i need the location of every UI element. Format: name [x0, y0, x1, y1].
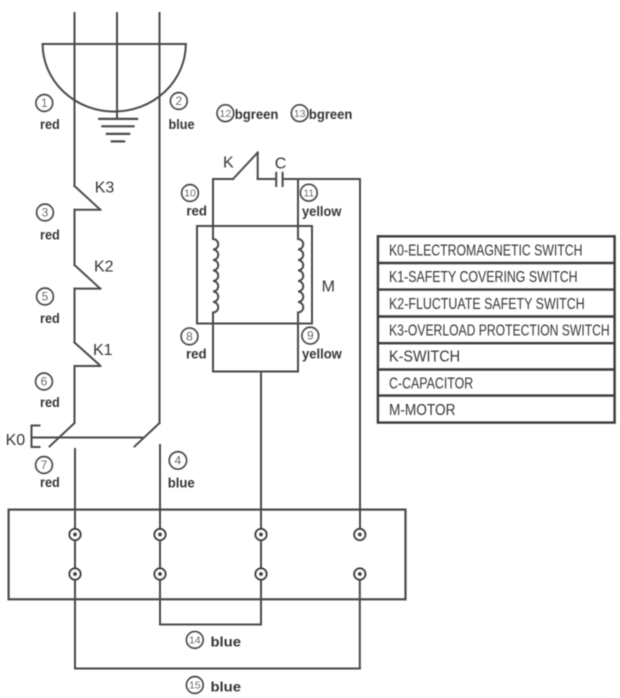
- svg-text:red: red: [186, 203, 207, 219]
- svg-text:red: red: [40, 474, 60, 490]
- svg-text:red: red: [40, 394, 60, 410]
- svg-text:8: 8: [186, 329, 193, 343]
- svg-text:yellow: yellow: [302, 203, 341, 219]
- svg-text:C-CAPACITOR: C-CAPACITOR: [389, 376, 473, 393]
- svg-text:7: 7: [41, 458, 48, 472]
- svg-text:K3-OVERLOAD PROTECTION SWITCH: K3-OVERLOAD PROTECTION SWITCH: [389, 323, 610, 340]
- svg-text:K2-FLUCTUATE SAFETY SWITCH: K2-FLUCTUATE SAFETY SWITCH: [389, 296, 585, 313]
- svg-text:10: 10: [184, 188, 196, 200]
- svg-text:9: 9: [307, 329, 314, 343]
- svg-text:K: K: [223, 155, 234, 172]
- svg-text:15: 15: [189, 680, 201, 692]
- svg-text:blue: blue: [211, 679, 242, 695]
- svg-text:K-SWITCH: K-SWITCH: [389, 348, 460, 365]
- svg-text:4: 4: [175, 453, 182, 467]
- svg-text:K3: K3: [95, 180, 115, 197]
- svg-text:2: 2: [175, 94, 182, 108]
- svg-text:M: M: [322, 279, 335, 296]
- svg-text:bgreen: bgreen: [235, 106, 279, 122]
- svg-text:6: 6: [41, 375, 48, 389]
- svg-text:13: 13: [294, 108, 306, 120]
- svg-text:K2: K2: [94, 259, 114, 276]
- svg-text:14: 14: [189, 635, 201, 647]
- svg-text:red: red: [40, 227, 60, 243]
- svg-text:K0: K0: [6, 432, 26, 449]
- svg-text:1: 1: [41, 96, 48, 110]
- svg-text:K1: K1: [93, 342, 113, 359]
- svg-text:yellow: yellow: [302, 346, 342, 362]
- svg-text:3: 3: [42, 206, 49, 220]
- svg-text:12: 12: [220, 108, 232, 120]
- svg-text:5: 5: [42, 290, 49, 304]
- svg-text:blue: blue: [211, 634, 242, 650]
- svg-text:red: red: [186, 346, 207, 362]
- svg-text:bgreen: bgreen: [309, 106, 353, 122]
- svg-text:K0-ELECTROMAGNETIC SWITCH: K0-ELECTROMAGNETIC SWITCH: [389, 242, 583, 259]
- svg-text:blue: blue: [169, 116, 195, 132]
- svg-text:red: red: [40, 310, 60, 326]
- svg-text:11: 11: [303, 187, 314, 199]
- svg-text:red: red: [40, 116, 60, 132]
- svg-text:C: C: [275, 156, 287, 173]
- svg-text:blue: blue: [168, 475, 195, 491]
- svg-text:M-MOTOR: M-MOTOR: [389, 402, 456, 419]
- svg-text:K1-SAFETY COVERING SWITCH: K1-SAFETY COVERING SWITCH: [389, 269, 578, 286]
